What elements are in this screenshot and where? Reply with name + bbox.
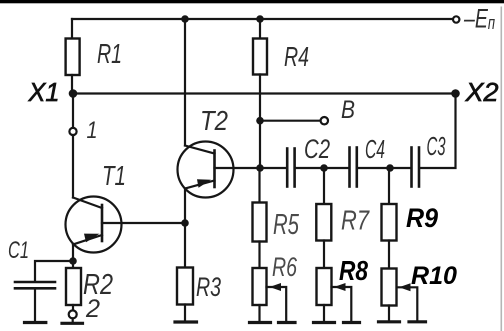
wire: X1 down to terminal 1 (72, 94, 74, 129)
wire: node to R5 (258, 168, 260, 203)
capacitor C1 bottom plate (15, 287, 55, 290)
ground under R6 (250, 321, 271, 324)
wire: junction to R2 (72, 261, 74, 268)
svg-text:R3: R3 (196, 272, 221, 302)
transistor T2 emitter lead (185, 181, 215, 189)
wire: node down to R3 (184, 223, 186, 268)
transistor T1 body (66, 197, 122, 253)
terminal B (open circle) (321, 117, 328, 124)
ground under R6 wiper (279, 321, 296, 324)
junction dot at T1 emitter/R2/C1 (69, 257, 77, 265)
wire: X1 to X2 horizontal link (73, 92, 456, 94)
junction dot at T1 base/T2 emitter/R3 (181, 219, 189, 227)
svg-text:R1: R1 (97, 38, 122, 69)
svg-text:R4: R4 (284, 41, 309, 72)
wire: R9 node to C3 (390, 167, 410, 169)
svg-text:C2: C2 (304, 134, 330, 164)
capacitor C4 right plate (355, 148, 358, 187)
svg-text:C4: C4 (365, 134, 385, 164)
svg-text:C3: C3 (427, 131, 446, 161)
svg-text:R10: R10 (411, 262, 457, 290)
wire: T2 base lead (215, 167, 261, 169)
potentiometer R6 body (253, 268, 267, 305)
wire: top supply rail (72, 18, 456, 20)
wire: R10 wiper to ground (397, 287, 417, 320)
wire: C2 to R7 node (296, 167, 324, 169)
wire: junction to C1 (35, 261, 73, 281)
svg-text:R9: R9 (406, 203, 438, 233)
ground under R10 wiper (409, 320, 426, 323)
transistor T1 collector lead (73, 198, 102, 209)
node X2 junction dot (451, 89, 460, 98)
transistor T2 collector lead (185, 146, 215, 154)
svg-text:R6: R6 (272, 252, 298, 282)
wire: node to R9 (388, 168, 390, 204)
ground under R3 (175, 320, 197, 323)
capacitor C2 right plate (293, 149, 296, 187)
transistor T2 base bar (213, 151, 216, 188)
transistor T1 base bar (101, 205, 104, 241)
terminal 2 (open circle) (69, 310, 77, 318)
potentiometer R6 wiper arrow (270, 283, 282, 291)
scan border right (501, 7, 503, 331)
resistor R9 (382, 204, 397, 241)
junction dot at R9/C4/C3 node (386, 164, 394, 172)
junction dot at R5/C2 node (256, 164, 264, 172)
wire: R8 bottom lead (323, 305, 325, 321)
junction dot at R7/C2/C4 node (320, 164, 328, 172)
svg-text:R8: R8 (339, 255, 368, 286)
wire: R4 bottom lead down to capacitor line (259, 75, 261, 169)
wire: R5 to R6 (258, 242, 260, 269)
wire: R1 top lead (71, 19, 73, 39)
svg-text:T2: T2 (200, 105, 228, 136)
wire: top rail down to T2 collector (184, 19, 186, 146)
svg-text:R7: R7 (341, 205, 370, 236)
capacitor C4 left plate (348, 148, 351, 187)
wire: R8 wiper to ground (332, 287, 352, 321)
wire: R7 to R8 (323, 241, 325, 269)
svg-text:1: 1 (87, 117, 98, 144)
wire: coupling line to C2 (260, 167, 286, 169)
node X1 junction dot (69, 89, 78, 98)
wire: C4 to R9 node (358, 167, 390, 169)
wire: node to R7 (323, 168, 325, 204)
transistor T1 emitter lead (73, 235, 102, 245)
svg-text:T1: T1 (102, 160, 126, 191)
resistor R2 (66, 268, 81, 305)
wire: R2 bottom lead to terminal 2 (72, 305, 74, 310)
wire: R6 wiper to ground (267, 287, 287, 321)
wire: T1 emitter down to R2/C1 junction (72, 245, 74, 262)
junction dot at B branch (256, 117, 264, 125)
svg-text:2: 2 (85, 295, 100, 323)
ground under R8 wiper (344, 321, 360, 324)
junction dot at rail/T2 collector (181, 15, 189, 23)
resistor R5 (253, 203, 267, 242)
capacitor C3 right plate (418, 148, 421, 187)
resistor R3 (177, 268, 193, 305)
transistor T2 body (178, 142, 234, 198)
ground under C1 (25, 321, 46, 324)
wire: T1 base lead to node (102, 222, 185, 224)
wire: terminal 2 to ground (72, 318, 74, 322)
svg-text:C1: C1 (8, 237, 29, 264)
potentiometer R10 body (382, 269, 397, 306)
resistor R4 (253, 39, 267, 75)
potentiometer R8 wiper arrow (334, 283, 346, 291)
wire: R3 bottom lead (184, 305, 186, 321)
transistor T1 emitter arrow (PNP) (84, 234, 100, 243)
wire: terminal 1 down to T1 collector (72, 135, 74, 198)
wire: R4 top lead (259, 19, 261, 39)
capacitor C1 top plate (15, 281, 55, 284)
transistor T2 emitter arrow (PNP) (197, 179, 211, 188)
resistor R1 (66, 39, 80, 76)
wire: R9 to R10 (388, 241, 390, 269)
wire: R6 bottom lead (258, 305, 260, 321)
resistor R7 (316, 204, 331, 241)
ground under R10 (379, 320, 400, 323)
scan border top (0, 0, 504, 3)
wire: R7 node to C4 (324, 167, 348, 169)
wire: C1 to ground (34, 290, 36, 322)
wire: T2 emitter down to T1 base node (184, 189, 186, 224)
wire: R1 bottom lead to X1 (71, 75, 73, 94)
wire: node B branch (260, 120, 321, 122)
wire: R10 bottom lead (388, 306, 390, 321)
wire: C3 to X2 drop (420, 94, 455, 169)
potentiometer R8 body (317, 268, 332, 305)
svg-text:B: B (341, 96, 355, 124)
ground under R8 (314, 321, 335, 324)
ground under terminal 2 (62, 322, 83, 325)
capacitor C2 left plate (286, 149, 289, 187)
svg-text:X2: X2 (464, 77, 499, 107)
terminal -En (open circle) (453, 16, 459, 22)
junction dot at rail/R4 (256, 15, 264, 23)
svg-text:R5: R5 (273, 209, 300, 241)
capacitor C3 left plate (410, 148, 413, 187)
potentiometer R10 wiper arrow (399, 283, 411, 291)
svg-text:X1: X1 (28, 77, 60, 107)
terminal 1 (open circle) (69, 128, 76, 135)
